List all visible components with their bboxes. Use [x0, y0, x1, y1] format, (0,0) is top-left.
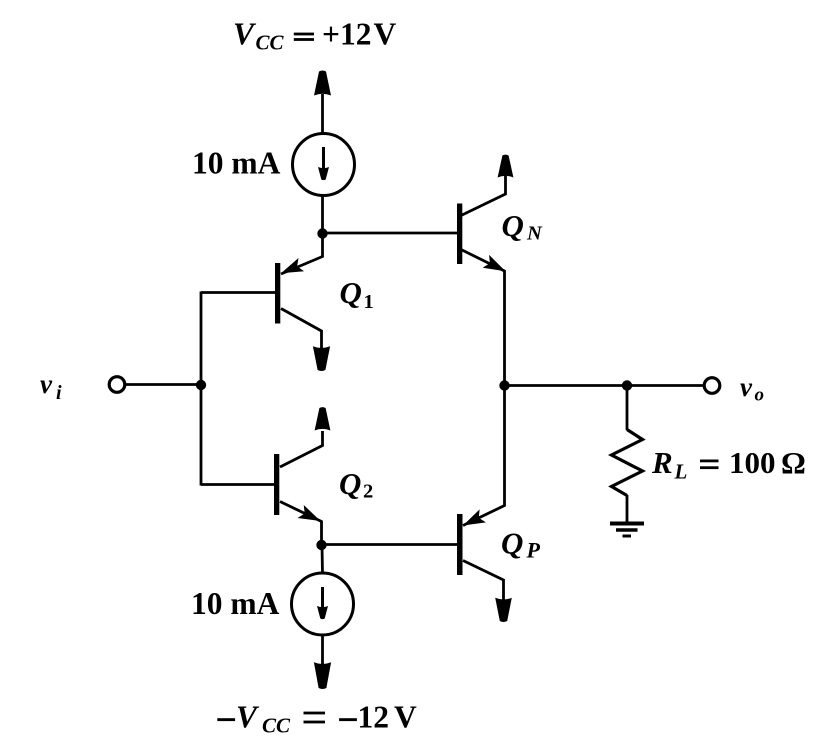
- svg-text:10 mA: 10 mA: [192, 146, 281, 181]
- svg-text:v: v: [40, 369, 53, 399]
- svg-text:v: v: [740, 372, 753, 402]
- svg-text:P: P: [526, 538, 541, 563]
- svg-text:V: V: [236, 700, 260, 735]
- svg-text:V: V: [374, 16, 397, 51]
- svg-text:12: 12: [358, 700, 390, 735]
- svg-text:+12: +12: [322, 16, 371, 51]
- svg-text:Ω: Ω: [781, 445, 806, 480]
- svg-text:1: 1: [364, 291, 374, 313]
- svg-text:CC: CC: [262, 714, 291, 738]
- svg-text:Q: Q: [501, 526, 523, 561]
- svg-text:100: 100: [729, 445, 776, 480]
- svg-text:CC: CC: [256, 31, 285, 55]
- svg-text:Q: Q: [502, 208, 524, 243]
- svg-text:10 mA: 10 mA: [191, 586, 280, 621]
- svg-text:Q: Q: [340, 275, 362, 310]
- svg-text:V: V: [233, 16, 257, 51]
- svg-text:o: o: [755, 385, 765, 406]
- svg-text:N: N: [526, 223, 543, 245]
- svg-text:Q: Q: [339, 466, 361, 501]
- svg-text:2: 2: [363, 481, 373, 503]
- svg-text:i: i: [56, 382, 62, 404]
- svg-text:R: R: [651, 445, 673, 480]
- svg-text:V: V: [394, 700, 417, 735]
- svg-text:L: L: [674, 460, 688, 484]
